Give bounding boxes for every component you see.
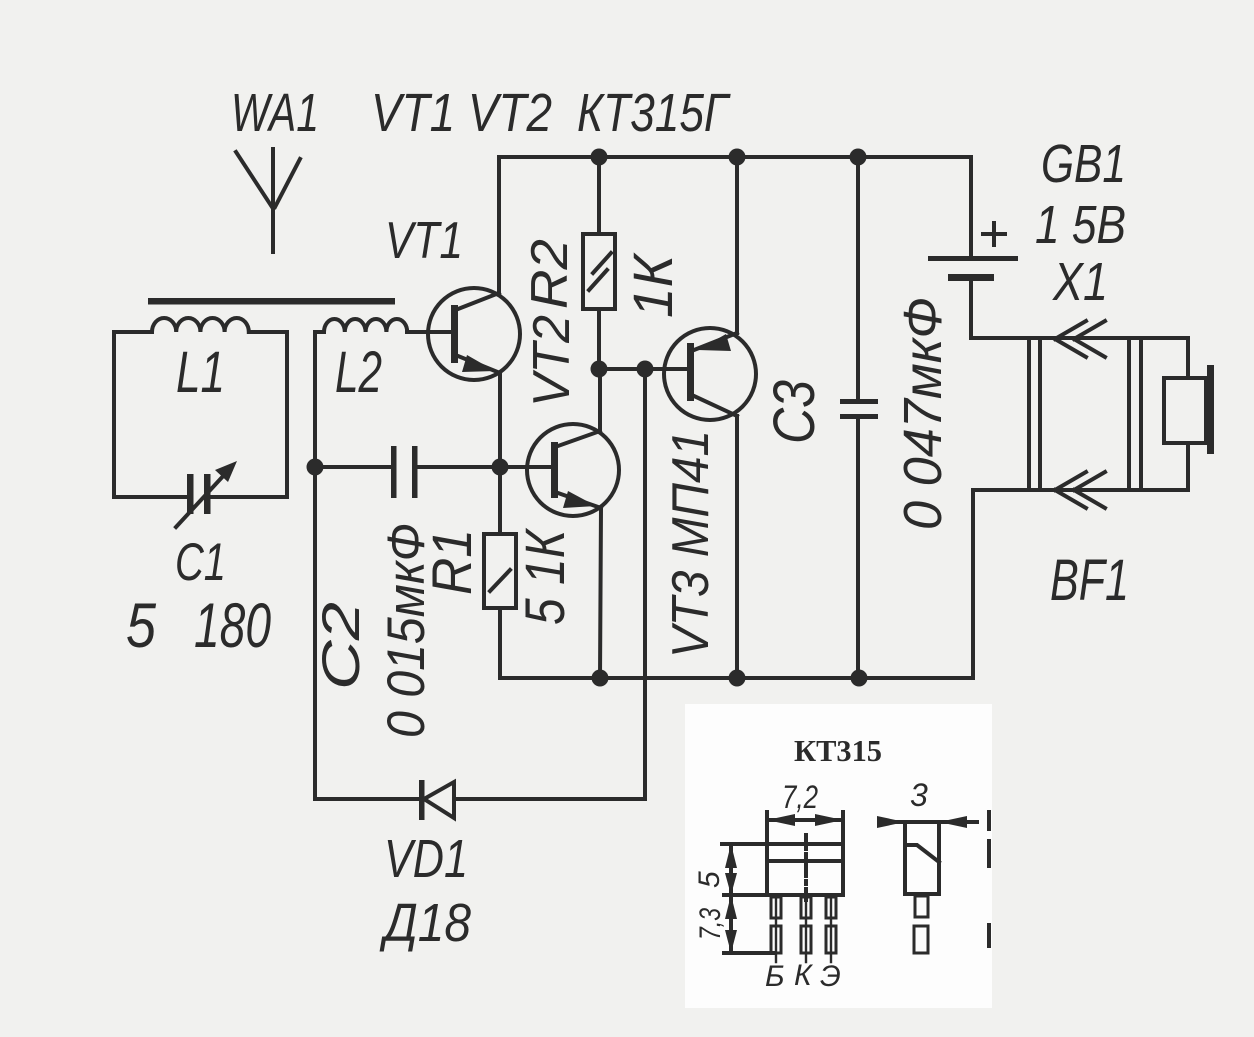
resistor R1 [484,534,516,608]
connector X1 bottom contact [973,472,1188,508]
svg-text:VT1 VT2: VT1 VT2 [371,83,552,143]
svg-text:Э: Э [820,960,841,993]
node VD1 line [637,361,654,378]
svg-text:VT3 МП41: VT3 МП41 [662,430,720,658]
svg-text:R1: R1 [420,529,483,595]
transistor VT3 [664,328,756,420]
KT315 lead E [826,895,836,962]
KT315 lead K [801,895,811,962]
capacitor C3 [840,157,878,678]
transistor VT2 [527,424,619,516]
wire VT3 emitter to top rail [735,157,739,333]
svg-text:5 1К: 5 1К [513,527,576,625]
ferrite rod core [148,298,395,305]
svg-text:1К: 1К [621,252,684,318]
svg-text:7,3: 7,3 [694,908,727,940]
capacitor C2 [315,446,499,498]
svg-text:КТ315Г: КТ315Г [577,83,731,143]
battery GB1 [928,157,1018,338]
junction bottom rail / VT3 collector [729,670,746,687]
wire VT1 emitter to node [498,373,502,467]
connector X1 body lines [1029,338,1141,490]
svg-text:L1: L1 [176,340,225,405]
wire R1 to bottom rail [498,608,502,678]
svg-text:C3: C3 [762,380,827,444]
inductor L2 [315,319,451,332]
wire VT3 collector to bottom rail [735,416,739,678]
junction top rail / R2 [591,149,608,166]
wire L2 left down to VD1 [313,332,317,799]
wire node to VT2 base [500,465,551,469]
svg-text:GB1: GB1 [1041,134,1126,194]
KT315 side view body [905,822,939,894]
svg-text:7,2: 7,2 [782,779,818,815]
svg-text:Б: Б [765,960,785,993]
KT315 inset box [685,704,992,1008]
svg-text:3: 3 [910,777,928,813]
node VT1 emitter / C2 / R1 / VT2 base [492,459,509,476]
variable capacitor C1 [176,461,237,527]
svg-text:Д18: Д18 [380,893,471,953]
wire VT1 collector to top rail [497,157,501,293]
junction bottom rail / C3 [851,670,868,687]
dimension 7,3 [694,895,774,953]
top rail [499,155,971,159]
wire VD1 vertical [643,369,647,799]
svg-text:0 047мкФ: 0 047мкФ [893,297,953,530]
KT315 lead B [771,895,781,962]
svg-text:L2: L2 [335,340,382,405]
svg-text:180: 180 [194,591,271,661]
svg-text:VT1: VT1 [385,212,463,270]
svg-text:X1: X1 [1051,252,1108,312]
bottom rail [500,676,973,680]
antenna WA1 [236,149,300,252]
resistor R2 [583,157,615,369]
KT315 side view lead [914,896,928,953]
svg-text:К: К [794,959,814,992]
wire VT2 emitter down [600,508,601,678]
inductor L1 [114,318,287,497]
svg-text:5: 5 [126,591,157,661]
transistor VT1 [428,288,520,380]
junction bottom rail / VT2 emitter [592,670,609,687]
wire to VT3 base [599,367,687,371]
svg-text:C2: C2 [312,602,371,690]
dimension 3 side view [877,777,977,828]
connector X1 top contact [971,321,1188,357]
dimension 5 [693,844,737,895]
svg-text:1 5В: 1 5В [1035,195,1126,255]
junction top rail / VT3 emitter [729,149,746,166]
node at L2 / C2 [307,459,324,476]
svg-text:КТ315: КТ315 [794,733,882,768]
dimension 7,2 [767,779,843,895]
wire node down to R1 [498,467,502,534]
plus sign [983,223,1005,245]
junction top rail / C3 [850,149,867,166]
svg-text:WA1: WA1 [231,83,319,143]
svg-text:5: 5 [693,871,726,888]
wire battery return [971,490,975,678]
svg-text:BF1: BF1 [1050,548,1129,613]
centerline dashes right [987,812,991,946]
diode VD1 [315,780,645,820]
svg-text:VT2: VT2 [523,315,581,407]
wire VT2 collector up [598,369,602,431]
KT315 front view body [722,835,843,900]
svg-text:R2: R2 [521,239,579,309]
node R2/VT2 collector [591,361,608,378]
svg-text:C1: C1 [175,533,226,592]
svg-text:VD1: VD1 [384,829,468,889]
speaker BF1 [1164,338,1214,490]
